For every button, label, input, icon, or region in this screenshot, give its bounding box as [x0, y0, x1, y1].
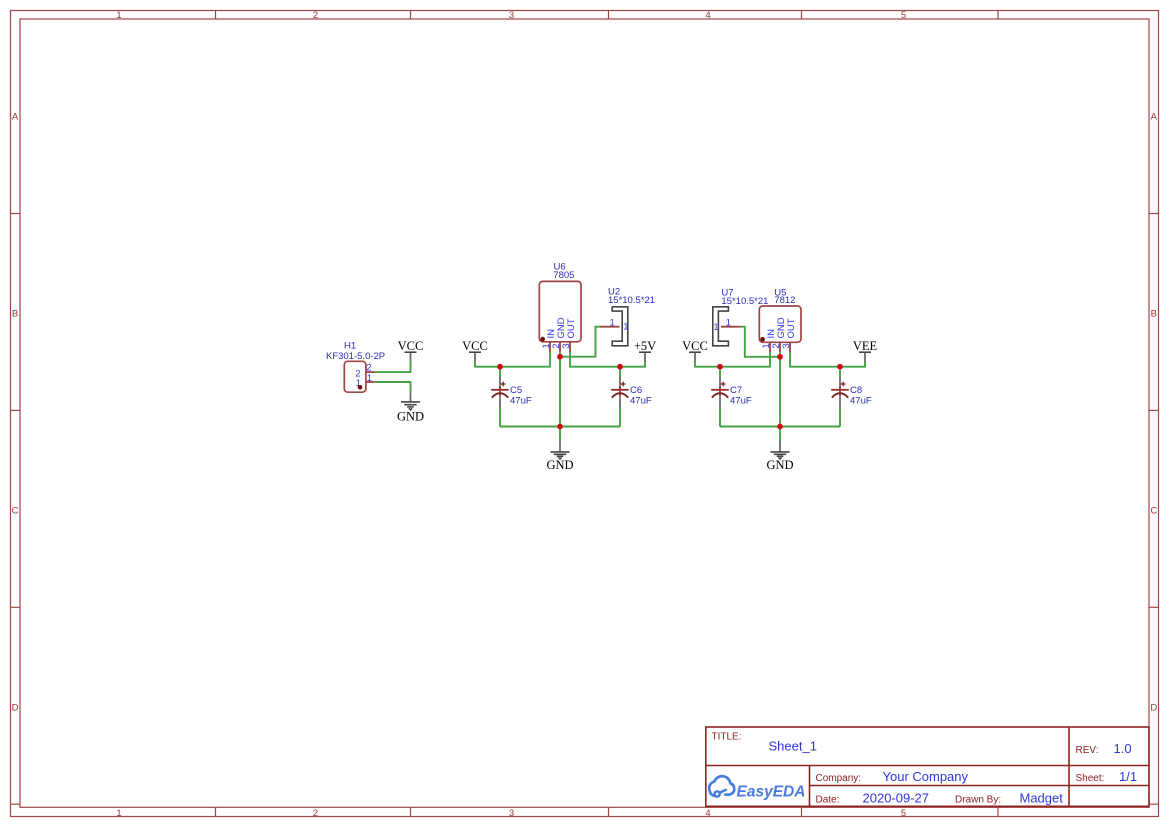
connector H1 KF301-5.0-2P — [326, 341, 385, 393]
junction ground rail (right) — [777, 424, 783, 430]
svg-text:VCC: VCC — [682, 339, 708, 353]
svg-text:1.0: 1.0 — [1114, 741, 1132, 756]
svg-text:Date:: Date: — [816, 794, 840, 805]
svg-text:+5V: +5V — [634, 339, 656, 353]
svg-text:C7: C7 — [730, 385, 742, 396]
power flag VCC (U5 input) — [682, 339, 708, 362]
svg-text:47uF: 47uF — [850, 395, 872, 406]
C6 positive plate — [611, 389, 629, 391]
junction ground rail (left) — [557, 424, 563, 430]
C8 top lead wire — [839, 367, 841, 377]
heatsink U7 15*10.5*21 — [713, 288, 769, 346]
C7 polarity plus sign — [721, 383, 726, 385]
svg-text:1: 1 — [726, 317, 731, 328]
svg-text:GND: GND — [397, 409, 424, 423]
wire U6 pin2 to U2 tab — [560, 327, 601, 357]
svg-text:A: A — [12, 112, 19, 123]
svg-text:C: C — [12, 506, 19, 517]
svg-text:1/1: 1/1 — [1119, 769, 1137, 784]
H1 pin 2 stub — [366, 371, 375, 373]
H1 pin 1 stub — [366, 381, 375, 383]
svg-text:3: 3 — [509, 10, 514, 21]
U7 pin 1 stub — [721, 326, 740, 328]
svg-text:1: 1 — [623, 321, 628, 332]
EasyEDA logo — [709, 776, 805, 800]
capacitor C8 47uF — [831, 367, 872, 427]
svg-text:2: 2 — [366, 362, 371, 373]
ground GND (U6 section) — [546, 441, 573, 472]
svg-text:47uF: 47uF — [730, 395, 752, 406]
svg-text:5: 5 — [901, 808, 906, 819]
svg-text:EasyEDA: EasyEDA — [737, 784, 806, 801]
junction +5V / C6 — [617, 364, 623, 370]
wire VCC to U5 pin1 — [695, 352, 770, 367]
capacitor C6 47uF — [611, 367, 652, 427]
svg-text:Your Company: Your Company — [883, 769, 969, 784]
C5 top lead wire — [499, 367, 501, 377]
svg-text:C5: C5 — [510, 385, 522, 396]
svg-text:TITLE:: TITLE: — [712, 731, 742, 742]
svg-text:Company:: Company: — [816, 773, 862, 784]
C7 top lead wire — [719, 367, 721, 377]
C8 polarity plus sign — [841, 383, 846, 385]
svg-text:2020-09-27: 2020-09-27 — [863, 791, 930, 806]
svg-text:47uF: 47uF — [630, 395, 652, 406]
wire VCC to U6 pin1 — [475, 352, 550, 367]
C5 bottom lead wire — [499, 398, 501, 407]
C8 bottom lead wire — [839, 398, 841, 407]
svg-text:A: A — [1151, 112, 1158, 123]
U5 body — [759, 306, 801, 342]
wire U5 pin2 GND vertical — [779, 352, 781, 426]
C7 negative plate (curved) — [712, 393, 728, 397]
svg-text:KF301-5.0-2P: KF301-5.0-2P — [326, 351, 385, 362]
wire ground rail (right section) — [720, 426, 840, 428]
svg-text:GND: GND — [766, 458, 793, 472]
svg-text:1: 1 — [116, 808, 121, 819]
wire U6 pin2 GND vertical — [559, 352, 561, 426]
svg-text:3: 3 — [781, 343, 792, 348]
U6 body — [539, 281, 581, 341]
svg-text:C: C — [1150, 506, 1157, 517]
U2 body (C-channel profile) — [612, 307, 628, 346]
svg-text:D: D — [1150, 702, 1157, 713]
C7 bottom lead wire — [719, 398, 721, 407]
svg-text:1: 1 — [367, 373, 372, 384]
power flag VCC (H1) — [398, 339, 424, 362]
svg-text:4: 4 — [705, 808, 710, 819]
power flag +5V — [634, 339, 656, 362]
svg-text:5: 5 — [901, 10, 906, 21]
junction U6 VCC / C5 — [497, 364, 503, 370]
U6 pin 2 stub — [559, 342, 561, 353]
svg-text:Sheet_1: Sheet_1 — [769, 739, 817, 754]
svg-text:B: B — [1151, 309, 1157, 320]
C6 negative plate (curved) — [612, 393, 628, 397]
svg-text:15*10.5*21: 15*10.5*21 — [721, 296, 768, 307]
U5 pin 3 stub — [789, 342, 791, 352]
svg-text:VCC: VCC — [398, 339, 424, 353]
U6 pin 3 stub — [569, 342, 571, 353]
U2 pin 1 stub — [601, 326, 620, 328]
svg-text:C8: C8 — [850, 385, 862, 396]
U7 body (C-channel profile) — [713, 307, 729, 346]
svg-text:1: 1 — [116, 10, 121, 21]
svg-text:D: D — [12, 702, 19, 713]
U5 pin 1 origin dot — [760, 337, 765, 342]
ground GND (U5 section) — [766, 441, 793, 472]
svg-text:VEE: VEE — [853, 339, 878, 353]
U6 pin 1 stub — [549, 342, 551, 353]
wire U5 pin3 to VEE — [790, 352, 865, 367]
regulator U6 7805 — [539, 261, 581, 352]
wire GND stem (right section) — [779, 427, 781, 442]
svg-text:REV:: REV: — [1076, 745, 1099, 756]
ground GND (H1) — [397, 392, 424, 423]
svg-text:1: 1 — [610, 317, 615, 328]
svg-text:Drawn By:: Drawn By: — [955, 794, 1001, 805]
C8 positive plate — [831, 389, 849, 391]
H1 body — [344, 361, 366, 392]
junction VEE / C8 — [837, 364, 843, 370]
capacitor C5 47uF — [491, 367, 532, 427]
C6 top lead wire — [619, 367, 621, 377]
svg-text:C6: C6 — [630, 385, 642, 396]
svg-text:VCC: VCC — [462, 339, 488, 353]
svg-text:2: 2 — [313, 10, 318, 21]
U5 pin 1 stub — [769, 342, 771, 352]
C5 polarity plus sign — [501, 383, 506, 385]
title block — [706, 727, 1149, 806]
svg-text:1: 1 — [713, 322, 718, 333]
svg-text:15*10.5*21: 15*10.5*21 — [608, 295, 655, 306]
C5 negative plate (curved) — [492, 393, 508, 397]
C7 positive plate — [711, 389, 729, 391]
power flag VEE — [853, 339, 878, 362]
svg-text:Madget: Madget — [1020, 791, 1064, 806]
junction U5 pin2 / U7 — [777, 354, 783, 360]
wire ground rail (left section) — [500, 426, 620, 428]
svg-text:7812: 7812 — [774, 295, 795, 306]
capacitor C7 47uF — [711, 367, 752, 427]
H1 pin 1 origin dot — [358, 385, 363, 390]
power flag VCC (U6 input) — [462, 339, 488, 362]
junction U5 VCC / C7 — [717, 364, 723, 370]
svg-text:OUT: OUT — [786, 318, 797, 338]
C6 polarity plus sign — [621, 383, 626, 385]
C6 bottom lead wire — [619, 398, 621, 407]
svg-text:7805: 7805 — [553, 270, 574, 281]
svg-text:47uF: 47uF — [510, 395, 532, 406]
svg-text:3: 3 — [509, 808, 514, 819]
regulator U5 7812 — [759, 287, 801, 352]
svg-text:OUT: OUT — [566, 318, 577, 338]
wire GND stem (left section) — [559, 427, 561, 442]
U6 pin 1 origin dot — [540, 337, 545, 342]
svg-text:2: 2 — [313, 808, 318, 819]
junction U6 pin2 / U2 — [557, 354, 563, 360]
wire H1 pin1 to GND — [375, 382, 411, 392]
svg-text:Sheet:: Sheet: — [1076, 773, 1105, 784]
svg-text:GND: GND — [546, 458, 573, 472]
wire U7 tab to U5 pin2 — [740, 327, 780, 357]
wire U6 pin3 to +5V — [570, 352, 645, 367]
C5 positive plate — [491, 389, 509, 391]
svg-text:4: 4 — [705, 10, 710, 21]
C8 negative plate (curved) — [832, 393, 848, 397]
heatsink U2 15*10.5*21 — [601, 286, 656, 346]
svg-text:3: 3 — [561, 343, 572, 348]
wire H1 pin2 to VCC — [375, 361, 411, 372]
U5 pin 2 stub — [779, 342, 781, 352]
svg-text:B: B — [12, 309, 18, 320]
